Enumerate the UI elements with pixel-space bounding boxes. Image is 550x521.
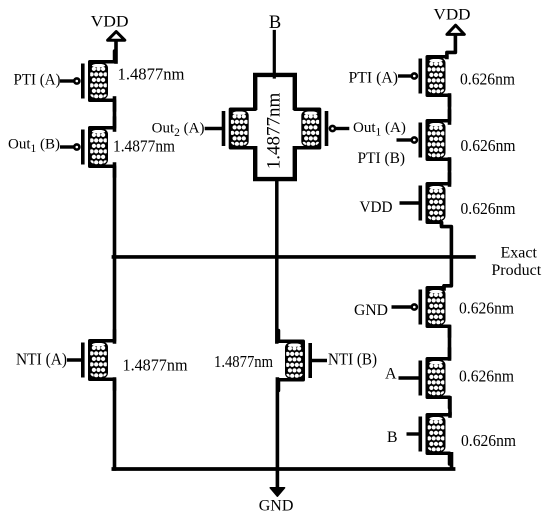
svg-text:1.4877nm: 1.4877nm — [214, 352, 273, 371]
wire B-gate to bottom rail — [450, 454, 454, 468]
wire A-gate to B-gate — [448, 398, 452, 416]
wire VDD to PTI (A) left — [114, 42, 118, 63]
transistor Out2 (A), NMOS (pass-gate left) — [205, 100, 256, 157]
svg-text:Out1 (A): Out1 (A) — [353, 120, 406, 139]
wire B input to pass-gate — [273, 32, 276, 78]
svg-text:VDD: VDD — [360, 199, 393, 216]
svg-text:0.626nm: 0.626nm — [459, 367, 514, 386]
node Exact Product — [491, 244, 541, 279]
pass-gate frame — [255, 75, 295, 179]
svg-text:Out1 (B): Out1 (B) — [8, 137, 60, 156]
svg-text:Exact: Exact — [501, 244, 538, 261]
transistor PTI (B), PMOS 0.626nm — [397, 110, 450, 170]
svg-text:PTI (A): PTI (A) — [349, 70, 399, 87]
svg-text:GND: GND — [259, 497, 294, 514]
transistor NTI (A), NMOS 1.4877nm — [67, 330, 115, 390]
svg-text:VDD: VDD — [434, 6, 471, 23]
svg-text:PTI (B): PTI (B) — [358, 150, 406, 167]
transistor Out1 (B), PMOS 1.4877nm — [60, 117, 115, 177]
transistor GND-gate, PMOS 0.626nm — [392, 286, 450, 337]
wire PTI (A) to Out1 (B) — [113, 98, 117, 130]
svg-text:A: A — [385, 366, 397, 383]
wire VDD to PTI (A) right — [447, 36, 456, 58]
node B input — [269, 13, 281, 33]
wire Out1 (B) down to output node — [113, 164, 117, 342]
power GND — [259, 488, 294, 515]
power VDD (right) — [434, 6, 471, 34]
svg-text:0.626nm: 0.626nm — [460, 70, 515, 89]
transistor B-gate, NMOS 0.626nm — [407, 413, 451, 464]
wire bottom rail — [113, 467, 453, 471]
transistor A-gate, NMOS 0.626nm — [399, 348, 450, 408]
transistor PTI (A) right, PMOS 0.626nm — [398, 57, 450, 106]
wire NTI (B) to GND — [276, 379, 280, 487]
wire NTI (A) to bottom rail — [113, 379, 117, 469]
wire pass-gate to NTI (B) — [275, 181, 279, 342]
svg-text:1.4877nm: 1.4877nm — [264, 93, 285, 170]
power VDD (left) — [91, 14, 129, 41]
wire exact product rail — [113, 255, 474, 259]
svg-text:0.626nm: 0.626nm — [461, 431, 516, 450]
svg-text:1.4877nm: 1.4877nm — [113, 137, 175, 156]
svg-text:Product: Product — [491, 262, 541, 279]
svg-text:VDD: VDD — [91, 14, 129, 31]
wire GND-gate to A-gate — [448, 327, 452, 360]
svg-text:0.626nm: 0.626nm — [459, 299, 514, 318]
svg-text:0.626nm: 0.626nm — [461, 136, 516, 155]
transistor PTI (A) left, PMOS 1.4877nm — [60, 51, 115, 111]
svg-text:NTI (A): NTI (A) — [16, 350, 67, 369]
svg-text:GND: GND — [354, 302, 388, 319]
svg-text:1.4877nm: 1.4877nm — [123, 355, 188, 374]
svg-text:PTI (A): PTI (A) — [14, 72, 61, 89]
svg-text:B: B — [387, 429, 398, 446]
svg-text:1.4877nm: 1.4877nm — [118, 65, 185, 84]
transistor Out1 (A), PMOS (pass-gate right) — [295, 100, 350, 157]
wire PTI (A) to PTI (B) — [448, 95, 452, 123]
wire VDD-gate through exact product node to GND-gate — [442, 224, 452, 290]
svg-text:Out2 (A): Out2 (A) — [152, 121, 205, 140]
wire PTI (B) to VDD-gate transistor — [448, 159, 452, 185]
transistor VDD-gate, NMOS 0.626nm — [400, 173, 450, 225]
svg-text:0.626nm: 0.626nm — [461, 199, 516, 218]
transistor NTI (B), NMOS (mirrored) — [279, 331, 328, 391]
svg-text:NTI (B): NTI (B) — [328, 350, 377, 369]
